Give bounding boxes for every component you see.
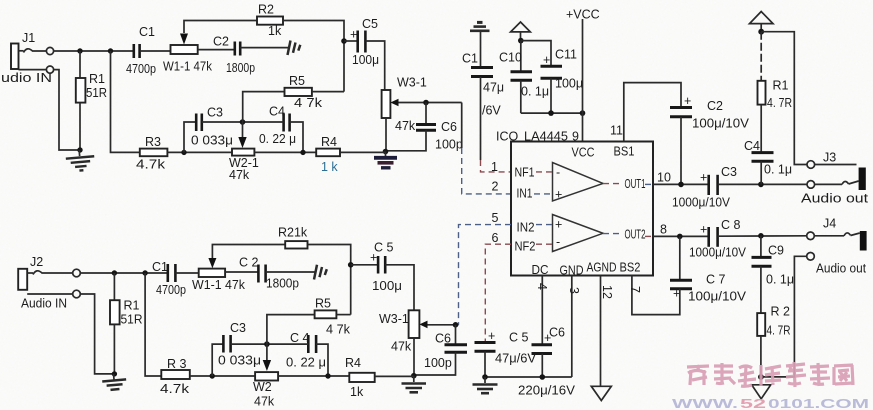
node input2 — [108, 48, 113, 53]
node R2 J4switch — [758, 374, 764, 380]
svg-text:Audio IN: Audio IN — [21, 297, 67, 311]
svg-text:IN1: IN1 — [517, 187, 533, 201]
wiper arrow onto W2 bottom — [263, 344, 271, 371]
svg-text:7: 7 — [628, 286, 642, 293]
svg-text:J3: J3 — [823, 151, 836, 165]
resistor R3 4.7k bottom — [160, 357, 255, 396]
svg-text:+: + — [543, 53, 550, 67]
svg-text:NF2: NF2 — [515, 240, 536, 254]
svg-text:C5: C5 — [362, 17, 378, 31]
svg-text:BS1: BS1 — [614, 145, 635, 159]
svg-text:R3: R3 — [145, 135, 161, 149]
op-amp U1b triangle — [536, 215, 653, 252]
ground under R1 bottom — [102, 373, 127, 391]
svg-text:R4: R4 — [321, 135, 337, 149]
capacitor C2 1800p — [198, 35, 289, 76]
node R3 C3 — [181, 150, 186, 155]
svg-text:100p: 100p — [424, 356, 452, 370]
capacitor C2 100u/10V bootstrap — [670, 94, 750, 184]
svg-text:W1-1 47k: W1-1 47k — [192, 278, 246, 292]
capacitor C4 0.1u — [744, 139, 792, 184]
svg-text:12: 12 — [600, 285, 614, 299]
potentiometer W3-1 47k — [382, 76, 462, 152]
node W3b wiper C6b — [453, 322, 459, 328]
svg-text:C9: C9 — [768, 244, 784, 258]
wire J2 ring to ground — [80, 294, 114, 374]
svg-text:1k: 1k — [268, 24, 282, 38]
wire input branch down to R3 — [111, 51, 140, 152]
resistor R2 4.7R — [757, 305, 790, 377]
svg-text:11: 11 — [610, 124, 623, 138]
ground flat above C1 47u — [470, 22, 490, 30]
wire OUT2 — [653, 235, 708, 237]
resistor R1 4.7R — [758, 32, 793, 152]
arrow ground right — [752, 385, 771, 399]
svg-text:0. 1μ: 0. 1μ — [521, 85, 549, 99]
svg-text:C 4: C 4 — [290, 331, 310, 345]
svg-text:C4: C4 — [744, 139, 760, 153]
capacitor C8 1000u/10V — [689, 218, 807, 260]
svg-text:100μ/10V: 100μ/10V — [692, 117, 750, 131]
wire input J2 to C1 — [80, 272, 167, 274]
capacitor C9 0.1u — [752, 236, 795, 313]
svg-text:4700p: 4700p — [126, 62, 156, 76]
ground after C2 — [288, 41, 301, 56]
wire OUT1 — [653, 183, 708, 185]
svg-text:100μ: 100μ — [555, 77, 583, 91]
wiper arrow onto W1-1 — [180, 34, 188, 45]
ground under W3 — [374, 152, 397, 168]
svg-text:100p: 100p — [435, 138, 463, 152]
svg-text:C1: C1 — [462, 52, 478, 66]
arrow ground AGND — [591, 386, 611, 400]
node C4b R4b — [325, 373, 330, 378]
svg-text:+: + — [555, 218, 562, 232]
watermark URL — [672, 397, 869, 410]
capacitor C5 100u — [344, 17, 385, 90]
svg-text:C 5: C 5 — [509, 331, 529, 345]
node input1 — [77, 48, 82, 53]
svg-text:C2: C2 — [707, 99, 723, 113]
svg-text:R 3: R 3 — [167, 357, 187, 371]
svg-text:0. 22 μ: 0. 22 μ — [286, 356, 326, 370]
svg-text:C3: C3 — [721, 165, 737, 179]
svg-text:0101.COM: 0101.COM — [768, 397, 869, 410]
capacitor C7 100u/10V bootstrap2 — [632, 236, 747, 314]
svg-text:47μ: 47μ — [483, 81, 504, 95]
wiper arrow onto W1-1 bottom — [208, 258, 216, 268]
node OUT1 zobel — [758, 182, 764, 188]
resistor R2 1k bottom — [212, 226, 350, 315]
svg-text:R1: R1 — [124, 299, 140, 313]
svg-text:0. 22 μ: 0. 22 μ — [259, 132, 296, 146]
ground under C5 — [473, 377, 498, 393]
svg-text:R2: R2 — [258, 3, 274, 17]
svg-text:+: + — [488, 329, 495, 343]
IC label row — [496, 124, 623, 144]
svg-text:47k: 47k — [229, 168, 250, 182]
svg-text:1 k: 1 k — [321, 160, 338, 174]
node R2b C5b junction — [348, 262, 354, 268]
capacitor C2 1800p bottom — [225, 256, 315, 291]
svg-text:220μ/16V: 220μ/16V — [518, 384, 576, 398]
svg-text:+: + — [673, 287, 680, 301]
node ground junction bottom — [411, 373, 417, 379]
wire IN2 dashed pin5 — [459, 225, 512, 325]
svg-text:W3-1: W3-1 — [379, 312, 409, 326]
wiper arrow onto W2-1 — [238, 122, 246, 148]
op-amp U1 LA4445 box — [511, 142, 653, 278]
connector J4 — [761, 217, 867, 377]
node C6 ground — [540, 374, 546, 380]
svg-text:1: 1 — [491, 160, 498, 174]
svg-text:4: 4 — [535, 283, 549, 290]
svg-text:C 2: C 2 — [239, 256, 259, 270]
node OUT2 bootstrap — [677, 234, 683, 240]
node W3 wiper C6 — [423, 100, 429, 106]
svg-text:C3: C3 — [207, 106, 223, 120]
svg-text:GND: GND — [560, 264, 584, 278]
svg-text:C4: C4 — [269, 105, 285, 119]
capacitor C6 220u/16V — [518, 326, 576, 398]
svg-text:R1: R1 — [89, 72, 105, 86]
node C5 ground — [482, 374, 488, 380]
resistor R5 4.7k — [243, 74, 344, 122]
svg-text:1800p: 1800p — [266, 277, 299, 291]
wire input branch down to R3 bottom — [145, 273, 161, 376]
wire input J1 to C1 — [54, 50, 133, 52]
svg-text:BS2: BS2 — [620, 261, 641, 275]
svg-text:C10: C10 — [499, 51, 522, 65]
svg-text:OUT2: OUT2 — [625, 228, 646, 242]
svg-text:4. 7R: 4. 7R — [767, 324, 791, 338]
resistor R4 1k bottom — [345, 356, 414, 399]
svg-text:4700p: 4700p — [156, 283, 186, 297]
svg-text:10: 10 — [657, 171, 671, 185]
node C3 C4 wiper — [240, 119, 246, 125]
potentiometer W1-1 47k — [163, 45, 213, 74]
node input2b — [142, 270, 147, 275]
node C11 rail — [548, 110, 554, 116]
connector J3 — [761, 32, 868, 206]
op-amp U1a triangle — [534, 163, 653, 202]
svg-text:52: 52 — [740, 397, 766, 410]
resistor R1 51R — [76, 51, 107, 150]
svg-text:100μ: 100μ — [372, 279, 402, 293]
svg-text:C 7: C 7 — [706, 273, 726, 287]
node VCC cap rail top — [518, 38, 524, 44]
connector J2 — [18, 255, 80, 311]
svg-text:1000μ/10V: 1000μ/10V — [689, 246, 747, 260]
svg-text:IN2: IN2 — [517, 221, 535, 235]
svg-text:C 8: C 8 — [721, 218, 741, 232]
wire AGND pin12 — [600, 276, 602, 387]
capacitor C11 100u — [521, 41, 583, 114]
svg-text:1000μ/10V: 1000μ/10V — [672, 196, 731, 210]
capacitor C3 1000u/10V — [672, 165, 807, 210]
node R2 C5 junction — [341, 38, 347, 44]
svg-text:W2: W2 — [253, 380, 272, 394]
svg-text:3: 3 — [567, 287, 581, 294]
svg-text:C 5: C 5 — [374, 241, 394, 255]
wire NF1 dashed to pin1 — [481, 160, 512, 172]
svg-text:WWW.: WWW. — [672, 397, 738, 410]
svg-text:4 7k: 4 7k — [294, 96, 323, 110]
svg-text:1k: 1k — [350, 385, 364, 399]
node VCC zobel J3 — [758, 29, 764, 35]
node R1b bottom — [112, 371, 117, 376]
svg-text:47k: 47k — [391, 340, 412, 354]
svg-text:6: 6 — [492, 231, 499, 245]
svg-text:W1-1 47k: W1-1 47k — [163, 60, 213, 74]
svg-text:VCC: VCC — [572, 146, 595, 160]
svg-text:C1: C1 — [139, 25, 155, 39]
power +VCC arrow — [511, 8, 600, 41]
potentiometer W2 47k bottom — [253, 372, 349, 408]
capacitor C1 47u/6V — [462, 31, 504, 160]
svg-text:4.7k: 4.7k — [160, 382, 190, 396]
power arrow top right — [750, 12, 774, 32]
svg-text:R21k: R21k — [278, 226, 308, 240]
capacitor C1 4700p — [126, 25, 171, 76]
svg-text:4.7k: 4.7k — [136, 158, 166, 172]
svg-text:OUT1: OUT1 — [625, 177, 646, 191]
svg-text:-: - — [556, 166, 560, 180]
svg-text:C6: C6 — [549, 326, 565, 340]
ground after C2 bottom — [314, 265, 327, 280]
node ground junction top — [383, 149, 389, 155]
wire IN1 from W3 wiper to pin2 — [462, 103, 511, 194]
node C4 R4 — [300, 150, 305, 155]
svg-text:47k: 47k — [395, 119, 416, 133]
node OUT1 bootstrap — [678, 182, 684, 188]
svg-text:+: + — [684, 94, 691, 108]
svg-text:C3: C3 — [230, 321, 246, 335]
svg-text:W3-1: W3-1 — [397, 76, 427, 90]
wire GND pin3 — [571, 276, 573, 378]
resistor R5 4.7k bottom — [267, 297, 351, 345]
svg-text:2: 2 — [492, 180, 499, 194]
ground under R1 — [65, 149, 95, 172]
svg-text:R5: R5 — [289, 74, 305, 88]
node R3b C3b — [210, 373, 215, 378]
capacitor C6 100p bottom — [414, 325, 467, 375]
svg-text:R1: R1 — [773, 79, 789, 93]
wire VCC to pin9 — [582, 19, 584, 142]
svg-text:+: + — [555, 188, 562, 202]
svg-text:5: 5 — [492, 211, 499, 225]
svg-text:0 033μ: 0 033μ — [218, 354, 261, 368]
svg-text:47μ/6V: 47μ/6V — [495, 352, 537, 366]
node OUT2 zobel — [758, 233, 764, 239]
svg-text:0. 1μ: 0. 1μ — [764, 163, 792, 177]
svg-text:47k: 47k — [254, 395, 275, 409]
ground under W3 bottom — [402, 376, 427, 393]
svg-text:R4: R4 — [345, 356, 361, 370]
node VCC rail — [580, 110, 586, 116]
svg-text:+: + — [700, 171, 707, 185]
wire BS1 pin11 — [624, 83, 681, 142]
svg-text:-: - — [556, 235, 560, 249]
potentiometer W2-1 47k — [229, 149, 316, 182]
svg-text:+: + — [350, 28, 357, 42]
svg-text:AGND: AGND — [587, 261, 617, 275]
svg-text:Audio out: Audio out — [801, 192, 869, 206]
wire ground rail bottom — [485, 376, 572, 378]
node input1b — [112, 270, 117, 275]
svg-text:51R: 51R — [121, 313, 143, 327]
node C3b C4b wiper — [264, 341, 270, 347]
potentiometer W3-1 47k bottom — [379, 310, 459, 375]
svg-text:C6: C6 — [441, 120, 457, 134]
svg-text:C1: C1 — [152, 260, 168, 274]
svg-text:4 7k: 4 7k — [326, 323, 351, 337]
svg-text:J1: J1 — [22, 31, 35, 45]
watermark Chinese — [687, 362, 853, 387]
potentiometer W1-1 47k bottom — [192, 269, 246, 292]
wire J1 ring to ground — [54, 70, 80, 150]
svg-text:+: + — [700, 223, 707, 237]
wire cap rail bottom to VCC line — [521, 112, 583, 114]
node R1 bottom — [77, 147, 82, 152]
wire DC pin4 — [541, 276, 543, 344]
svg-text:100μ/10V: 100μ/10V — [688, 290, 747, 304]
capacitor C5 100u bottom — [351, 241, 414, 311]
capacitor C3 0.033u bottom — [212, 321, 267, 376]
resistor R1 51R bottom — [110, 273, 143, 374]
capacitor C3 0.033u — [184, 106, 243, 153]
svg-text:J2: J2 — [30, 255, 43, 269]
svg-text:R5: R5 — [315, 297, 331, 311]
svg-text:/6V: /6V — [482, 104, 501, 118]
svg-text:C11: C11 — [555, 48, 577, 62]
svg-text:1800p: 1800p — [226, 61, 255, 75]
wire NF2 dashed pin6 — [485, 244, 511, 341]
svg-text:R 2: R 2 — [771, 305, 791, 319]
svg-text:100μ: 100μ — [352, 53, 379, 67]
svg-text:Audio out: Audio out — [816, 262, 866, 276]
capacitor C4 0.22u — [243, 105, 304, 153]
svg-text:J4: J4 — [823, 217, 836, 231]
capacitor C1 4700p bottom — [152, 260, 199, 297]
svg-text:51R: 51R — [86, 86, 107, 100]
svg-text:8: 8 — [660, 223, 667, 237]
capacitor C6 100p — [386, 103, 463, 152]
svg-text:C2: C2 — [213, 35, 229, 49]
svg-text:NF1: NF1 — [515, 166, 535, 180]
capacitor C5 47u/6V — [475, 329, 537, 377]
svg-text:0 033μ: 0 033μ — [191, 134, 233, 148]
svg-text:4. 7R: 4. 7R — [767, 96, 792, 110]
resistor R3 4.7k — [136, 135, 232, 172]
svg-text:0. 1μ: 0. 1μ — [766, 273, 794, 287]
connector J1 — [1, 31, 54, 85]
resistor R2 1k feedback — [184, 3, 344, 92]
capacitor C4 0.22u bottom — [267, 331, 328, 376]
svg-text:DC: DC — [532, 263, 549, 277]
resistor R4 1k — [316, 135, 385, 174]
capacitor C10 0.1u — [499, 41, 549, 114]
svg-text:udio IN: udio IN — [1, 71, 52, 85]
svg-text:C6: C6 — [435, 332, 451, 346]
